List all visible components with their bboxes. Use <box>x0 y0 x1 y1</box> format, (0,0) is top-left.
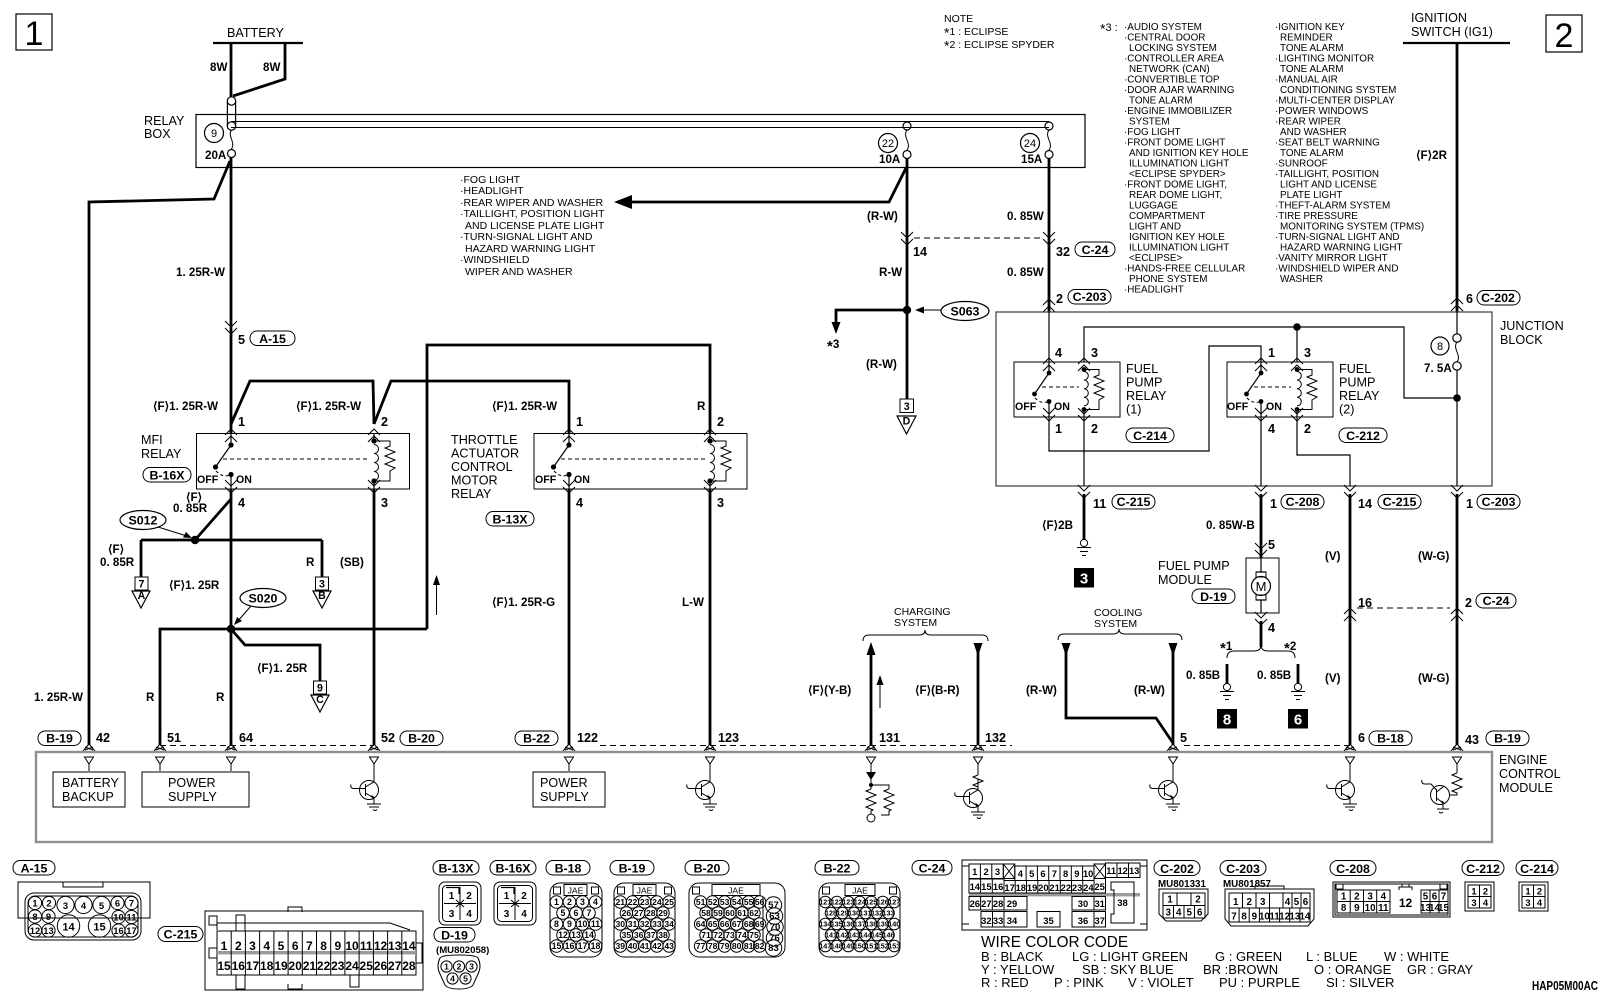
svg-text:B-13X: B-13X <box>492 513 528 527</box>
JB wire FPR1 pin2 ground exit <box>1083 417 1085 486</box>
wire color code line 1 <box>981 949 1449 964</box>
fuel pump relay 2 box <box>1227 362 1333 417</box>
svg-text:2: 2 <box>1555 17 1574 55</box>
svg-text:WASHER: WASHER <box>1280 274 1323 285</box>
svg-text:13: 13 <box>1129 865 1139 876</box>
svg-text:19: 19 <box>1027 882 1037 893</box>
connector B-16X drawing <box>494 882 536 925</box>
svg-text:(V): (V) <box>1325 672 1341 685</box>
svg-text:·ENGINE IMMOBILIZER: ·ENGINE IMMOBILIZER <box>1124 106 1232 117</box>
svg-text:143: 143 <box>848 931 860 940</box>
FPR2 coil <box>1295 367 1302 417</box>
svg-text:12: 12 <box>30 925 40 936</box>
relay box bus lines <box>231 122 1049 128</box>
svg-text:22: 22 <box>317 959 331 973</box>
svg-text:8W: 8W <box>263 61 280 74</box>
svg-text:3: 3 <box>381 496 388 510</box>
svg-text:B-16X: B-16X <box>495 862 531 876</box>
fuse 22 element <box>903 122 911 159</box>
JB coil bus <box>1084 327 1457 398</box>
svg-text:·FRONT DOME LIGHT: ·FRONT DOME LIGHT <box>1124 138 1225 149</box>
svg-text:CONTROL: CONTROL <box>451 460 513 474</box>
connector C-214 drawing <box>1519 882 1548 911</box>
svg-text:2: 2 <box>381 415 388 429</box>
svg-text:24: 24 <box>1083 882 1094 893</box>
svg-text:12: 12 <box>374 939 388 953</box>
FPR1 resistor <box>1084 370 1104 410</box>
transistor at 5 <box>1150 771 1180 811</box>
svg-text:12: 12 <box>558 930 568 940</box>
svg-text:3: 3 <box>249 939 256 953</box>
svg-text:·VANITY MIRROR LIGHT: ·VANITY MIRROR LIGHT <box>1275 253 1388 264</box>
connector B-18 capsule <box>546 861 590 876</box>
up arrow annotation near bus <box>436 580 438 615</box>
svg-text:0. 85B: 0. 85B <box>1186 669 1220 682</box>
svg-text:25: 25 <box>664 897 674 907</box>
C-24 pin2 chevron <box>1451 608 1463 621</box>
svg-text:MOTOR: MOTOR <box>451 474 498 488</box>
bus wire MFI pin2 to throttle pin1 <box>374 381 569 433</box>
wire 14 C-215 to ECM 6 <box>1349 494 1352 745</box>
FPR1 pin chevrons bottom <box>1043 408 1055 421</box>
svg-text:26: 26 <box>622 908 632 918</box>
svg-text:14: 14 <box>970 881 981 892</box>
svg-text:2: 2 <box>1354 892 1360 903</box>
svg-text:73: 73 <box>725 930 735 940</box>
svg-text:R: R <box>146 691 155 704</box>
svg-text:3: 3 <box>1260 897 1266 908</box>
svg-text:4: 4 <box>576 496 583 510</box>
capsule B-18 <box>1369 731 1412 746</box>
svg-text:30: 30 <box>1078 898 1088 909</box>
svg-text:11: 11 <box>360 939 373 953</box>
connector C-212 capsule <box>1462 861 1504 877</box>
splice S020 dot <box>227 625 235 633</box>
arrow box 3B <box>313 577 331 608</box>
connector B-19 drawing <box>614 883 675 957</box>
svg-text:75: 75 <box>749 930 759 940</box>
svg-text:14: 14 <box>62 921 75 933</box>
cooling wire right to ECM 5 <box>1172 650 1175 745</box>
svg-text:C-215: C-215 <box>1383 495 1417 509</box>
charging bracket <box>863 630 988 641</box>
svg-text:26: 26 <box>374 959 388 973</box>
svg-text:1: 1 <box>221 939 228 953</box>
connector C-208 drawing <box>1333 882 1450 917</box>
resistor and transistor at 43 <box>1422 771 1462 813</box>
svg-text:C-212: C-212 <box>1466 862 1500 876</box>
svg-text:C-203: C-203 <box>1482 495 1516 509</box>
pump ground wire <box>1260 621 1263 647</box>
svg-text:27: 27 <box>388 959 402 973</box>
svg-text:16: 16 <box>232 959 246 973</box>
ECM dashed terminal line <box>160 745 1350 747</box>
svg-text:7: 7 <box>1052 868 1057 879</box>
JB wire FPR2 pin4 exit <box>1260 417 1262 486</box>
svg-text:4: 4 <box>1268 422 1275 436</box>
JB bus dot at FPR2 coil <box>1293 323 1301 331</box>
FPR1 pin chevrons top <box>1043 358 1055 371</box>
svg-text:18: 18 <box>1016 882 1026 893</box>
svg-text:18: 18 <box>591 941 601 951</box>
svg-text:·HEADLIGHT: ·HEADLIGHT <box>460 185 524 197</box>
svg-text:15A: 15A <box>1021 153 1043 166</box>
svg-text:150: 150 <box>854 942 866 951</box>
svg-text:8: 8 <box>1223 712 1231 729</box>
svg-text:4: 4 <box>1268 621 1275 635</box>
svg-text:147: 147 <box>819 942 831 951</box>
svg-text:8: 8 <box>554 919 559 929</box>
svg-text:34: 34 <box>1007 915 1018 926</box>
connector C-208 capsule <box>1330 861 1376 877</box>
svg-text:24: 24 <box>652 897 662 907</box>
svg-text:13: 13 <box>571 930 581 940</box>
svg-text:⟨F⟩(Y-B): ⟨F⟩(Y-B) <box>808 684 851 697</box>
svg-text:C-24: C-24 <box>1483 594 1510 608</box>
svg-text:153: 153 <box>888 942 900 951</box>
svg-text:9: 9 <box>211 128 217 140</box>
svg-text:145: 145 <box>871 931 883 940</box>
fuel pump pin5 chevron <box>1255 543 1267 556</box>
svg-text:7: 7 <box>1231 912 1237 923</box>
svg-text:18: 18 <box>260 959 274 973</box>
svg-text:123: 123 <box>842 898 854 907</box>
svg-text:41: 41 <box>640 941 650 951</box>
svg-text:AND WASHER: AND WASHER <box>1280 127 1347 138</box>
svg-text:122: 122 <box>831 898 843 907</box>
svg-text:SYSTEM: SYSTEM <box>894 617 937 629</box>
connector A-15 drawing <box>18 882 150 940</box>
fuel pump pin4 chevron <box>1255 612 1267 625</box>
svg-text:1: 1 <box>576 415 583 429</box>
svg-text:A-15: A-15 <box>259 332 286 346</box>
svg-text:38: 38 <box>658 930 668 940</box>
svg-text:31: 31 <box>1094 898 1104 909</box>
svg-text:15: 15 <box>93 921 105 933</box>
wire from fuse9 to ECM 42 <box>89 161 230 745</box>
svg-text:R: R <box>306 556 315 569</box>
svg-text:9: 9 <box>334 939 341 953</box>
svg-text:82: 82 <box>755 941 765 951</box>
svg-text:RELAY: RELAY <box>141 447 182 461</box>
svg-text:1: 1 <box>1466 497 1473 511</box>
svg-text:10: 10 <box>1083 868 1093 879</box>
svg-text:37: 37 <box>646 930 656 940</box>
svg-text:17: 17 <box>246 959 260 973</box>
svg-text:23: 23 <box>331 959 345 973</box>
svg-text:ON: ON <box>1266 401 1282 413</box>
svg-text:FUEL: FUEL <box>1339 362 1371 376</box>
svg-text:65: 65 <box>708 919 718 929</box>
svg-text:REAR DOME LIGHT,: REAR DOME LIGHT, <box>1129 190 1222 201</box>
connector D-19 drawing <box>438 955 480 989</box>
connector B-18 drawing <box>550 883 602 957</box>
capsule B-19 right <box>1486 731 1529 746</box>
ground stub 2 <box>1297 664 1300 683</box>
svg-text:1: 1 <box>1268 346 1275 360</box>
svg-text:8: 8 <box>320 939 327 953</box>
fog light list <box>460 174 605 278</box>
svg-text:OFF: OFF <box>1015 401 1037 413</box>
dashed C-24 link top <box>914 237 1042 239</box>
svg-text:2: 2 <box>1304 422 1311 436</box>
svg-text:146: 146 <box>883 931 895 940</box>
svg-text:8: 8 <box>1341 903 1347 914</box>
svg-text:28: 28 <box>646 908 656 918</box>
svg-text:43: 43 <box>664 941 674 951</box>
svg-text:36: 36 <box>634 930 644 940</box>
label 2 C-203 <box>1043 299 1055 312</box>
FPR2 C-212 capsule <box>1339 428 1387 443</box>
svg-text:1: 1 <box>554 897 559 907</box>
svg-text:P : PINK: P : PINK <box>1054 975 1104 990</box>
svg-text:(R-W): (R-W) <box>1026 684 1057 697</box>
svg-text:3: 3 <box>1080 571 1088 588</box>
svg-text:·HANDS-FREE CELLULAR: ·HANDS-FREE CELLULAR <box>1124 264 1245 275</box>
svg-text:77: 77 <box>696 941 706 951</box>
svg-text:2: 2 <box>46 897 51 908</box>
svg-text:5: 5 <box>278 939 285 953</box>
svg-text:63: 63 <box>769 911 780 922</box>
ground symbol 3 <box>1077 539 1091 555</box>
svg-text:A: A <box>138 590 146 602</box>
svg-text:16: 16 <box>993 881 1003 892</box>
wire MFI pin4 down <box>230 489 233 745</box>
connector D-19 capsule <box>434 928 475 943</box>
svg-text:IGNITION: IGNITION <box>1411 11 1467 25</box>
svg-text:B-19: B-19 <box>46 732 73 746</box>
svg-text:22: 22 <box>882 138 894 150</box>
svg-text:135: 135 <box>831 920 843 929</box>
power supply box 1 <box>142 772 249 807</box>
svg-text:1: 1 <box>32 897 37 908</box>
svg-text:54: 54 <box>732 897 742 907</box>
connector C-212 drawing <box>1465 882 1494 911</box>
capsule B-19 left <box>38 731 81 746</box>
svg-text:61: 61 <box>737 908 747 918</box>
throttle relay box <box>534 434 747 490</box>
svg-text:1: 1 <box>1270 497 1277 511</box>
svg-text:9: 9 <box>46 911 51 922</box>
MFI relay B-16X capsule <box>143 468 191 483</box>
svg-text:M: M <box>1256 579 1267 594</box>
svg-text:RELAY: RELAY <box>1126 389 1167 403</box>
svg-text:17: 17 <box>578 941 588 951</box>
svg-text:2: 2 <box>1483 886 1488 897</box>
svg-text:ON: ON <box>574 474 590 486</box>
svg-text:3: 3 <box>319 579 325 591</box>
ground wire from FPR1 pin2 <box>1083 494 1086 539</box>
svg-text:FUEL: FUEL <box>1126 362 1158 376</box>
throttle pin chevrons bottom <box>563 480 575 493</box>
JB wire FPR2 pin2 exit <box>1297 417 1350 486</box>
junction block outline <box>996 312 1492 486</box>
cooling wire left <box>1066 650 1173 743</box>
transistor at 132 <box>955 771 985 819</box>
connector B-22 drawing <box>819 883 900 957</box>
svg-text:<ECLIPSE>: <ECLIPSE> <box>1129 253 1182 264</box>
svg-text:123: 123 <box>718 731 739 745</box>
svg-text:R-W: R-W <box>879 266 902 279</box>
cooling bracket <box>1058 629 1182 640</box>
connector C-24 pin32 chevron <box>1043 232 1055 245</box>
svg-text:1: 1 <box>444 962 449 972</box>
svg-text:59: 59 <box>713 908 723 918</box>
fuse 24 element <box>1045 122 1053 159</box>
svg-text:BACKUP: BACKUP <box>62 790 114 804</box>
svg-text:·REAR WIPER: ·REAR WIPER <box>1275 117 1341 128</box>
svg-text:6: 6 <box>574 908 579 918</box>
svg-text:3: 3 <box>469 962 474 972</box>
svg-text:(W-G): (W-G) <box>1418 550 1449 563</box>
power supply box 2 <box>533 772 605 807</box>
svg-text:BATTERY: BATTERY <box>227 26 285 40</box>
svg-text:D-19: D-19 <box>1200 590 1227 604</box>
svg-text:(SB): (SB) <box>340 556 364 569</box>
wire color code line 3 <box>981 975 1394 990</box>
svg-text:2: 2 <box>983 866 988 877</box>
connector C-203 drawing <box>1225 886 1314 926</box>
svg-text:R: R <box>697 400 706 413</box>
connector C-24 capsule <box>912 861 952 876</box>
svg-text:36: 36 <box>1078 915 1088 926</box>
svg-text:11: 11 <box>591 919 600 929</box>
fuse 9 circle <box>205 124 224 143</box>
MFI pin chevrons bottom <box>225 480 237 493</box>
svg-text:THROTTLE: THROTTLE <box>451 433 517 447</box>
svg-text:·CONVERTIBLE TOP: ·CONVERTIBLE TOP <box>1124 75 1220 86</box>
svg-text:21: 21 <box>616 897 626 907</box>
svg-text:(1): (1) <box>1126 403 1141 417</box>
svg-text:11: 11 <box>1378 903 1389 914</box>
svg-text:C-214: C-214 <box>1133 429 1167 443</box>
svg-text:3: 3 <box>1367 892 1373 903</box>
svg-text:5: 5 <box>561 908 566 918</box>
svg-text:2: 2 <box>1056 292 1063 306</box>
svg-text:4: 4 <box>1537 897 1543 908</box>
svg-text:80: 80 <box>732 941 742 951</box>
relay box outline <box>196 115 1085 168</box>
frame page number 2 <box>1546 15 1582 55</box>
svg-text:B-22: B-22 <box>523 732 550 746</box>
svg-text:3: 3 <box>63 900 68 911</box>
svg-text:MFI: MFI <box>141 433 163 447</box>
JB wire FPR1 pin1 to FPR2 pin1 <box>1049 346 1261 451</box>
svg-text:132: 132 <box>871 909 883 918</box>
svg-text:53: 53 <box>720 897 730 907</box>
svg-text:20: 20 <box>1038 882 1048 893</box>
throttle relay resistor <box>710 441 731 481</box>
svg-text:C-208: C-208 <box>1286 495 1320 509</box>
wire color code line 2 <box>981 962 1474 977</box>
svg-text:R : RED: R : RED <box>981 975 1029 990</box>
svg-text:15: 15 <box>981 881 991 892</box>
svg-text:27: 27 <box>634 908 644 918</box>
svg-text:4: 4 <box>593 897 598 907</box>
svg-text:·TURN-SIGNAL LIGHT AND: ·TURN-SIGNAL LIGHT AND <box>1275 232 1400 243</box>
svg-text:2: 2 <box>1537 886 1542 897</box>
svg-text:6: 6 <box>115 897 120 908</box>
ECM terminal triangles <box>85 757 94 771</box>
svg-text:C: C <box>316 694 324 706</box>
svg-text:TONE ALARM: TONE ALARM <box>1129 96 1192 107</box>
throttle relay switch <box>551 433 572 489</box>
svg-text:20A: 20A <box>205 149 227 162</box>
MFI relay switch <box>213 433 234 489</box>
svg-text:<ECLIPSE SPYDER>: <ECLIPSE SPYDER> <box>1129 169 1226 180</box>
svg-text:C-24: C-24 <box>1082 243 1109 257</box>
svg-text:SWITCH (IG1): SWITCH (IG1) <box>1411 25 1493 39</box>
svg-text:BLOCK: BLOCK <box>1500 333 1543 347</box>
svg-text:14: 14 <box>1299 912 1310 923</box>
svg-text:25: 25 <box>1094 881 1104 892</box>
svg-text:IGNITION KEY HOLE: IGNITION KEY HOLE <box>1129 232 1225 243</box>
bus wire MFI pin1 to pin2 <box>231 381 374 424</box>
svg-text:·MULTI-CENTER DISPLAY: ·MULTI-CENTER DISPLAY <box>1275 96 1395 107</box>
svg-text:NOTE: NOTE <box>944 13 973 25</box>
S020 horizontal to ECM 51 <box>160 629 231 745</box>
connector C-24 pin14 chevron <box>901 232 913 245</box>
svg-text:(V): (V) <box>1325 550 1341 563</box>
svg-text:39: 39 <box>616 941 626 951</box>
JB exit chevrons <box>1078 485 1090 498</box>
svg-text:4: 4 <box>450 974 455 984</box>
svg-text:·SEAT BELT WARNING: ·SEAT BELT WARNING <box>1275 138 1380 149</box>
svg-text:4: 4 <box>1285 897 1291 908</box>
svg-text:D-19: D-19 <box>441 929 468 943</box>
svg-text:1: 1 <box>504 891 510 902</box>
svg-text:4: 4 <box>1381 892 1387 903</box>
svg-text:1. 25R-W: 1. 25R-W <box>34 691 83 704</box>
svg-text:6: 6 <box>1358 731 1365 745</box>
svg-text:SYSTEM: SYSTEM <box>1094 618 1137 630</box>
svg-text:OFF: OFF <box>535 474 557 486</box>
FPR2 switch <box>1244 362 1263 417</box>
svg-text:20: 20 <box>289 959 303 973</box>
fuel pump motor <box>1252 558 1271 613</box>
svg-text:0. 85W: 0. 85W <box>1007 210 1044 223</box>
svg-text:COMPARTMENT: COMPARTMENT <box>1129 211 1205 222</box>
fusible link 8W left wire <box>230 43 233 97</box>
FPR2 pin chevrons top <box>1255 358 1267 371</box>
svg-text:32: 32 <box>981 915 991 926</box>
svg-text:4: 4 <box>466 909 472 920</box>
svg-text:2: 2 <box>717 415 724 429</box>
svg-text:29: 29 <box>1007 898 1017 909</box>
svg-text:139: 139 <box>877 920 889 929</box>
svg-text:ACTUATOR: ACTUATOR <box>451 447 519 461</box>
svg-text:72: 72 <box>713 930 723 940</box>
svg-text:9: 9 <box>567 919 572 929</box>
connector C-203 capsule <box>1220 861 1266 877</box>
svg-text:5: 5 <box>1180 731 1187 745</box>
svg-text:126: 126 <box>877 898 889 907</box>
svg-text:66: 66 <box>720 919 730 929</box>
FPR1 switch <box>1032 362 1051 417</box>
svg-text:7: 7 <box>139 579 145 591</box>
svg-text:ON: ON <box>1054 401 1070 413</box>
svg-text:141: 141 <box>825 931 837 940</box>
svg-text:4: 4 <box>1483 897 1489 908</box>
svg-text:4: 4 <box>1055 346 1062 360</box>
svg-text:3: 3 <box>449 909 455 920</box>
svg-text:34: 34 <box>664 919 674 929</box>
battery backup box <box>53 772 125 807</box>
wire fuse9 down to MFI pin1 <box>230 158 233 433</box>
svg-text:GR : GRAY: GR : GRAY <box>1407 962 1474 977</box>
svg-text:1: 1 <box>1525 886 1530 897</box>
svg-text:·FRONT DOME LIGHT,: ·FRONT DOME LIGHT, <box>1124 180 1227 191</box>
